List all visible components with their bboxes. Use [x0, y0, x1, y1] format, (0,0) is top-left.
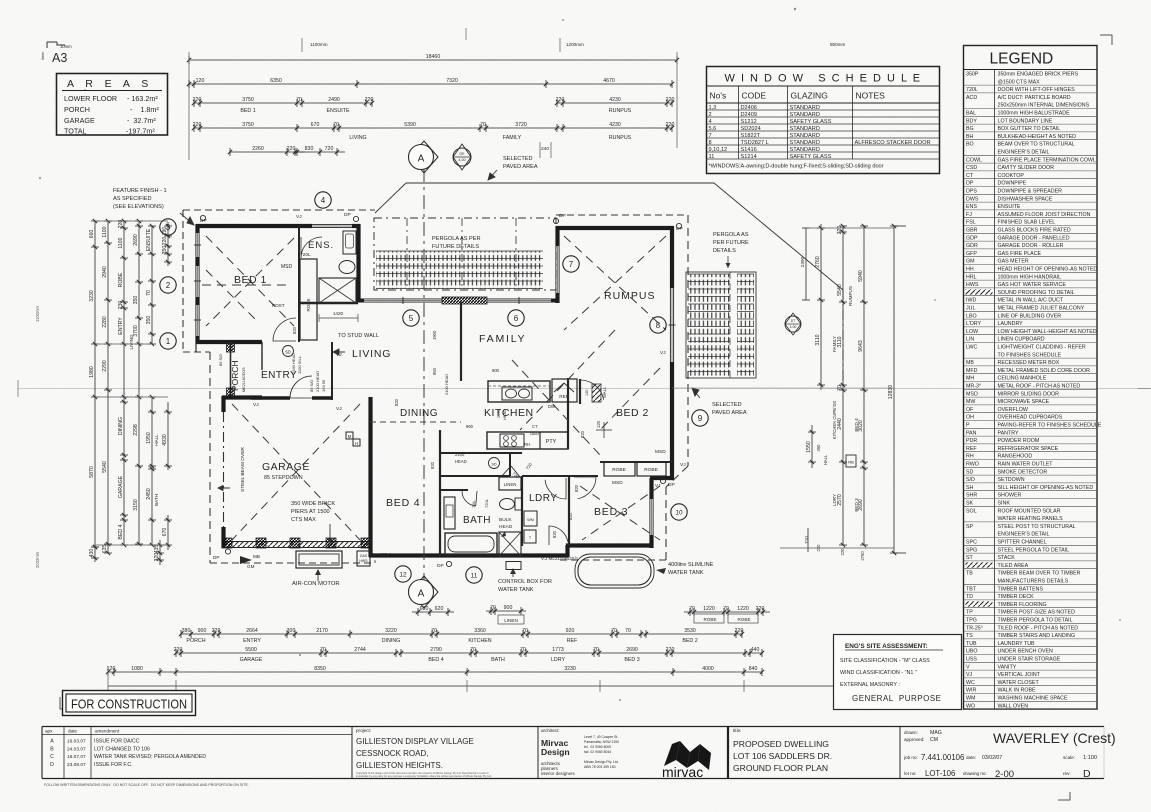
title block divider project — [351, 727, 353, 779]
svg-text:CT: CT — [532, 424, 538, 429]
svg-text:REF: REF — [567, 638, 578, 644]
svg-text:2: 2 — [166, 281, 171, 290]
svg-text:FAMILY: FAMILY — [479, 333, 526, 345]
svg-text:BULKHEAD-HEIGHT AS NOTED: BULKHEAD-HEIGHT AS NOTED — [998, 134, 1077, 140]
svg-text:ENS.: ENS. — [308, 240, 334, 251]
svg-text:WO: WO — [966, 703, 975, 709]
svg-text:OF: OF — [966, 407, 974, 413]
svg-text:TIMBER DECK: TIMBER DECK — [998, 594, 1035, 600]
svg-text:BED 1: BED 1 — [234, 274, 267, 286]
svg-text:RUMPUS: RUMPUS — [848, 286, 853, 306]
svg-text:OVERHEAD CUPBOARDS: OVERHEAD CUPBOARDS — [998, 415, 1063, 421]
svg-text:BED 1: BED 1 — [240, 108, 255, 114]
svg-text:STEEL BEAM OVER: STEEL BEAM OVER — [240, 447, 246, 492]
drawing ref marker DE — [453, 148, 471, 166]
svg-text:TIMBER BATTENS: TIMBER BATTENS — [998, 586, 1044, 592]
svg-text:AIR-CON MOTOR: AIR-CON MOTOR — [292, 581, 340, 587]
svg-text:1550: 1550 — [806, 441, 812, 453]
window marker 1 — [160, 333, 176, 349]
svg-text:CTS MAX: CTS MAX — [291, 517, 316, 523]
svg-text:220: 220 — [556, 97, 565, 103]
svg-text:MSD: MSD — [612, 480, 623, 486]
svg-text:SILL HEIGHT OF OPENING-AS NOTE: SILL HEIGHT OF OPENING-AS NOTED — [998, 485, 1094, 491]
svg-text:DP: DP — [559, 213, 566, 219]
svg-text:85 STEPDOWN: 85 STEPDOWN — [264, 475, 303, 481]
svg-text:03/02/07: 03/02/07 — [982, 755, 1002, 761]
wall ens east — [356, 224, 360, 302]
svg-text:3110: 3110 — [837, 336, 843, 347]
svg-text:@1500 CTS MAX: @1500 CTS MAX — [998, 79, 1041, 85]
top edge fold mark — [465, 28, 467, 40]
svg-text:FAMILY: FAMILY — [832, 336, 837, 352]
svg-text:DINING: DINING — [382, 638, 401, 644]
svg-text:680: 680 — [420, 606, 429, 612]
svg-text:230: 230 — [118, 301, 124, 310]
svg-text:11: 11 — [471, 572, 478, 579]
svg-text:MFD: MFD — [966, 368, 978, 374]
svg-text:SPG: SPG — [966, 547, 977, 553]
svg-text:3750: 3750 — [242, 122, 254, 128]
svg-text:BED 4: BED 4 — [854, 418, 859, 432]
svg-text:DP: DP — [213, 555, 219, 560]
svg-text:18460: 18460 — [426, 54, 441, 60]
svg-text:PERGOLA AS: PERGOLA AS — [713, 232, 749, 238]
svg-text:5540: 5540 — [102, 461, 108, 473]
svg-text:- 1.8m²: - 1.8m² — [130, 105, 159, 114]
svg-text:D: D — [50, 762, 54, 768]
svg-text:FEATURE FINISH - 1: FEATURE FINISH - 1 — [113, 188, 167, 194]
svg-text:PDR: PDR — [966, 438, 977, 444]
svg-text:DOWNPIPE & SPREADER: DOWNPIPE & SPREADER — [998, 189, 1063, 195]
svg-text:ROBE: ROBE — [612, 467, 626, 473]
svg-text:drawing no:: drawing no: — [963, 771, 987, 776]
wall bed4 north / dining — [370, 429, 440, 431]
svg-text:LBO: LBO — [966, 313, 977, 319]
svg-text:*WINDOWS:A-awning;D-double hun: *WINDOWS:A-awning;D-double hung;F-fixed;… — [709, 164, 884, 170]
svg-text:interior designers: interior designers — [541, 771, 575, 776]
svg-text:70: 70 — [320, 647, 326, 653]
svg-text:BED 4: BED 4 — [118, 524, 124, 539]
svg-text:DP: DP — [344, 212, 351, 218]
left dim chain col5 — [151, 226, 153, 344]
svg-text:MR-3°: MR-3° — [966, 384, 981, 390]
wall rumpus north — [556, 226, 674, 230]
svg-text:STEEL POST TO STRUCTURAL: STEEL POST TO STRUCTURAL — [998, 524, 1076, 530]
window 7 rumpus west — [555, 246, 557, 293]
svg-text:ENSUITE: ENSUITE — [998, 204, 1021, 210]
svg-text:4000: 4000 — [702, 666, 714, 672]
svg-text:70: 70 — [431, 628, 437, 634]
svg-text:HALL: HALL — [823, 454, 828, 465]
wall kitchen/bed2 — [567, 378, 569, 449]
revision table — [42, 734, 352, 736]
svg-text:ROBE: ROBE — [703, 617, 716, 622]
svg-text:BED 2: BED 2 — [682, 638, 697, 644]
window marker 10 — [671, 504, 687, 520]
bath tiled corner X — [499, 532, 521, 556]
svg-text:VJ: VJ — [253, 402, 259, 408]
svg-text:CONTROL BOX FOR: CONTROL BOX FOR — [498, 579, 552, 585]
svg-text:1773: 1773 — [552, 647, 564, 653]
svg-text:2100 HEAD: 2100 HEAD — [444, 374, 449, 395]
svg-text:23.08.07: 23.08.07 — [67, 762, 86, 768]
svg-text:350: 350 — [133, 296, 139, 305]
svg-text:SELECTED: SELECTED — [712, 402, 742, 408]
svg-text:GARAGE DOOR - ROLLER: GARAGE DOOR - ROLLER — [998, 243, 1064, 249]
top dim row 5 partial — [230, 151, 305, 153]
wall bed3 west — [568, 476, 570, 545]
svg-text:BAL: BAL — [966, 111, 976, 117]
svg-text:fax. 02 9080 8044: fax. 02 9080 8044 — [584, 750, 611, 754]
svg-text:380: 380 — [182, 628, 191, 634]
title block divider title — [727, 727, 729, 779]
wall living/family north with windows 5,6 — [358, 299, 364, 303]
right horiz tie line at top — [806, 227, 894, 229]
svg-text:70: 70 — [625, 628, 631, 634]
top dim row 2: 120 6350 7320 4670 — [189, 83, 672, 85]
svg-text:6350: 6350 — [270, 78, 282, 84]
svg-text:ROBE: ROBE — [118, 272, 124, 287]
svg-text:MIRROR SLIDING DOOR: MIRROR SLIDING DOOR — [998, 391, 1060, 397]
left dim chain col4 — [138, 221, 140, 544]
sheet centerline left edge mark — [17, 380, 19, 397]
svg-text:2690: 2690 — [858, 499, 864, 511]
svg-text:REF: REF — [966, 446, 977, 452]
LEGEND table — [964, 46, 1098, 710]
svg-text:72lL: 72lL — [471, 500, 476, 508]
AREAS table — [57, 74, 168, 136]
svg-text:MANUFACTURERS DETAILS: MANUFACTURERS DETAILS — [998, 579, 1069, 585]
svg-text:B: B — [50, 746, 54, 752]
svg-text:720L: 720L — [966, 87, 978, 93]
svg-text:TIMBER BEAM OVER TO TIMBER: TIMBER BEAM OVER TO TIMBER — [998, 571, 1081, 577]
svg-text:3020: 3020 — [858, 420, 864, 432]
svg-text:H: H — [355, 441, 358, 446]
bed2 dashed diag — [512, 360, 600, 455]
svg-text:1900: 1900 — [432, 330, 437, 340]
svg-text:SHOWER: SHOWER — [998, 493, 1022, 499]
svg-text:tel. 02 9080 8000: tel. 02 9080 8000 — [584, 745, 611, 749]
svg-text:TB: TB — [966, 571, 973, 577]
svg-text:7.441.00106: 7.441.00106 — [921, 753, 964, 762]
wall garage south with piers — [222, 541, 372, 543]
svg-text:HEAD: HEAD — [499, 524, 513, 530]
svg-text:TBT: TBT — [966, 586, 977, 592]
svg-text:KITCHEN: KITCHEN — [468, 638, 491, 644]
svg-text:BATH: BATH — [154, 494, 159, 506]
svg-text:TILED AREA: TILED AREA — [998, 563, 1029, 569]
svg-text:24.03.07: 24.03.07 — [67, 746, 86, 752]
svg-text:635: 635 — [102, 545, 108, 554]
wall garage north — [222, 395, 262, 399]
svg-text:TS: TS — [966, 633, 973, 639]
right dim small 1550/hall — [811, 425, 813, 468]
svg-text:4-00: 4-00 — [458, 158, 465, 162]
svg-text:HWS: HWS — [966, 282, 979, 288]
svg-text:PTY: PTY — [546, 439, 557, 445]
svg-text:8350: 8350 — [314, 666, 326, 672]
svg-text:SMOKE DETECTOR: SMOKE DETECTOR — [998, 469, 1048, 475]
section marker A bottom — [410, 576, 438, 608]
svg-text:RUMPUS: RUMPUS — [604, 290, 656, 302]
svg-text:820: 820 — [580, 430, 585, 438]
svg-text:No's: No's — [710, 91, 727, 101]
svg-text:220: 220 — [162, 237, 168, 246]
svg-text:FAMILY: FAMILY — [503, 135, 522, 141]
window marker 7 — [563, 256, 579, 272]
svg-text:V.J ML2115RDS/1: V.J ML2115RDS/1 — [541, 556, 579, 561]
wall rumpus west — [555, 226, 559, 246]
svg-text:TIMBER STAIRS AND LANDING: TIMBER STAIRS AND LANDING — [998, 633, 1076, 639]
svg-text:70: 70 — [490, 605, 496, 611]
svg-text:ENG'S SITE ASSESSMENT:: ENG'S SITE ASSESSMENT: — [845, 643, 928, 650]
wall bed1 west (windows 1,2,3) — [195, 224, 199, 233]
svg-text:approved:: approved: — [904, 737, 924, 742]
svg-text:WATER TANK: WATER TANK — [668, 570, 704, 576]
svg-text:220: 220 — [666, 97, 675, 103]
svg-text:2490: 2490 — [328, 97, 340, 103]
svg-text:GAS FIRE PLACE: GAS FIRE PLACE — [998, 251, 1042, 257]
svg-text:CSD: CSD — [966, 165, 977, 171]
svg-text:220: 220 — [837, 226, 843, 235]
svg-text:12830: 12830 — [888, 385, 894, 400]
svg-text:920: 920 — [566, 628, 575, 634]
svg-text:220: 220 — [840, 548, 845, 556]
svg-text:BED 4: BED 4 — [386, 497, 420, 509]
svg-text:REF: REF — [559, 394, 569, 400]
svg-text:1100: 1100 — [118, 237, 124, 248]
svg-text:900: 900 — [492, 368, 500, 373]
bed1 dashed joist lines — [206, 236, 294, 326]
svg-text:2290: 2290 — [102, 360, 108, 372]
svg-text:140: 140 — [585, 390, 589, 396]
svg-text:CEILING MANHOLE: CEILING MANHOLE — [998, 376, 1047, 382]
svg-text:220: 220 — [735, 628, 744, 634]
WINDOW SCHEDULE table — [707, 67, 940, 174]
svg-text:1080: 1080 — [131, 666, 143, 672]
svg-text:WAVERLEY (Crest): WAVERLEY (Crest) — [993, 730, 1116, 746]
right dim chain rumpus/family — [842, 226, 844, 545]
svg-text:DP: DP — [966, 181, 974, 187]
scan specks — [794, 8, 796, 10]
svg-text:2390: 2390 — [800, 256, 806, 267]
svg-text:2690: 2690 — [626, 647, 638, 653]
svg-text:5500: 5500 — [245, 647, 257, 653]
bath wc — [500, 499, 515, 510]
svg-text:2450: 2450 — [146, 488, 152, 500]
svg-text:IWD: IWD — [966, 298, 976, 304]
svg-text:PER FUTURE: PER FUTURE — [713, 240, 749, 246]
svg-text:2440: 2440 — [837, 418, 843, 430]
svg-text:ACD: ACD — [966, 95, 977, 101]
svg-text:C: C — [50, 754, 54, 760]
svg-text:RUNPUS: RUNPUS — [609, 135, 632, 141]
svg-text:S/D: S/D — [966, 477, 975, 483]
svg-text:A R E A S: A R E A S — [67, 78, 150, 90]
wall ens/bed1 divider + robe — [298, 226, 300, 342]
svg-text:BH: BH — [966, 134, 974, 140]
svg-text:ABN 78 003 359 153: ABN 78 003 359 153 — [584, 765, 616, 769]
svg-text:1: 1 — [166, 337, 171, 346]
wall living/dining divider (x461) — [460, 302, 462, 381]
svg-text:GILLIESTON DISPLAY VILLAGE: GILLIESTON DISPLAY VILLAGE — [356, 737, 474, 746]
svg-text:1200mm: 1200mm — [566, 42, 584, 47]
svg-text:BED 4: BED 4 — [428, 657, 443, 663]
svg-text:PAVED AREA: PAVED AREA — [712, 410, 747, 416]
svg-text:COOKTOP: COOKTOP — [998, 173, 1025, 179]
svg-text:3230: 3230 — [564, 666, 576, 672]
ldry fixtures (tub/wm) — [524, 511, 537, 526]
svg-text:TUB: TUB — [966, 641, 977, 647]
svg-text:HWS: HWS — [359, 559, 368, 563]
svg-text:PORCH: PORCH — [186, 638, 205, 644]
svg-text:DINING: DINING — [400, 408, 438, 419]
svg-text:title:: title: — [733, 728, 741, 733]
svg-text:SK: SK — [966, 501, 974, 507]
left dim chain col3 — [123, 221, 125, 545]
svg-text:drawn:: drawn: — [904, 730, 918, 735]
svg-text:VERTICAL JOINT: VERTICAL JOINT — [998, 672, 1041, 678]
window marker 4 — [315, 192, 331, 208]
ldry door arc — [545, 478, 566, 499]
svg-text:TILED ROOF - PITCH AS NOTED: TILED ROOF - PITCH AS NOTED — [998, 625, 1079, 631]
svg-text:LAUNDRY TUB: LAUNDRY TUB — [998, 641, 1036, 647]
svg-text:9643: 9643 — [858, 340, 864, 352]
svg-text:5540: 5540 — [837, 284, 843, 296]
ref nook + wall label — [552, 379, 577, 402]
title block divider info — [899, 727, 901, 779]
right dim overall 12830 — [893, 226, 895, 553]
svg-text:2760: 2760 — [815, 256, 821, 268]
svg-text:LDRY: LDRY — [551, 657, 566, 663]
svg-text:300: 300 — [287, 628, 296, 634]
svg-text:REFRIGERATOR SPACE: REFRIGERATOR SPACE — [998, 446, 1059, 452]
section marker A top — [410, 141, 438, 173]
svg-text:CAVITY SLIDER DOOR: CAVITY SLIDER DOOR — [998, 165, 1055, 171]
svg-text:LIVING: LIVING — [352, 348, 391, 360]
svg-text:VJ: VJ — [336, 406, 342, 412]
svg-text:320: 320 — [154, 553, 160, 562]
svg-text:220: 220 — [666, 122, 675, 128]
svg-text:LIN: LIN — [966, 337, 974, 343]
svg-text:TOTAL: TOTAL — [64, 127, 87, 136]
wall east (bed2/rumpus) — [670, 226, 674, 288]
svg-text:2032mm: 2032mm — [35, 551, 40, 568]
wall bed4/bath south — [369, 553, 568, 557]
svg-text:SPC: SPC — [966, 540, 977, 546]
svg-text:LINE OF BUILDING OVER: LINE OF BUILDING OVER — [998, 313, 1062, 319]
kitchen sink — [502, 387, 532, 400]
svg-text:GFP: GFP — [966, 251, 977, 257]
svg-text:ENGINEER’S DETAIL: ENGINEER’S DETAIL — [998, 532, 1050, 538]
svg-text:16.03.07: 16.03.07 — [67, 739, 86, 745]
svg-text:5390: 5390 — [404, 122, 416, 128]
svg-text:WALL OVEN: WALL OVEN — [998, 703, 1029, 709]
svg-text:SINK: SINK — [998, 501, 1011, 507]
svg-text:- 32.7m²: - 32.7m² — [127, 116, 156, 125]
svg-text:VJ: VJ — [680, 462, 686, 468]
svg-text:SITE CLASSIFICATION - "M" CLAS: SITE CLASSIFICATION - "M" CLASS — [840, 658, 930, 664]
svg-text:A3: A3 — [52, 51, 67, 65]
svg-text:BG: BG — [966, 126, 974, 132]
bottom dim row 4 totals — [108, 671, 762, 673]
left dim tie lines — [95, 220, 168, 222]
bottom tie line — [108, 685, 905, 687]
wall bed1 north — [196, 224, 312, 228]
svg-text:WATER TANK REVISED; PERGOLA AM: WATER TANK REVISED; PERGOLA AMENDED — [94, 754, 206, 760]
section line A-A vertical — [423, 168, 425, 588]
svg-text:3150: 3150 — [133, 499, 139, 511]
svg-text:L'DRY: L'DRY — [966, 321, 982, 327]
svg-text:435: 435 — [154, 545, 160, 554]
smoke detector — [283, 346, 294, 357]
svg-text:2100: 2100 — [455, 452, 465, 457]
svg-text:METAL ROOF - PITCH AS NOTED: METAL ROOF - PITCH AS NOTED — [998, 384, 1081, 390]
window 4 ens north — [312, 223, 352, 225]
svg-text:RH: RH — [524, 442, 530, 447]
svg-text:LOT CHANGED TO 106: LOT CHANGED TO 106 — [94, 746, 150, 752]
ens vanity — [343, 231, 356, 254]
svg-text:MSD: MSD — [966, 391, 978, 397]
svg-text:DW: DW — [548, 404, 555, 409]
wall bed3 south — [566, 543, 653, 547]
svg-text:1100mm: 1100mm — [35, 306, 40, 322]
svg-text:2664: 2664 — [246, 628, 258, 634]
right dim chain col 2390/2760 — [805, 228, 807, 300]
air-con motor — [296, 551, 342, 568]
svg-text:BED 3: BED 3 — [854, 498, 859, 512]
svg-text:820: 820 — [552, 530, 557, 538]
top dim row 3 bed1/ensuite — [194, 102, 372, 104]
svg-text:3360: 3360 — [474, 628, 486, 634]
eave dashed outline — [183, 209, 375, 211]
svg-text:70: 70 — [611, 628, 617, 634]
title block outline — [42, 726, 1104, 728]
svg-text:WIND CLASSIFICATION - "N1 ": WIND CLASSIFICATION - "N1 " — [840, 670, 917, 676]
svg-text:DINING: DINING — [118, 417, 124, 435]
title block divider architect — [537, 727, 539, 779]
svg-text:220: 220 — [756, 606, 765, 612]
svg-text:POST: POST — [272, 303, 285, 308]
svg-text:1000mm HIGH BALUSTRADE: 1000mm HIGH BALUSTRADE — [998, 111, 1071, 117]
svg-text:ENSUITE: ENSUITE — [327, 108, 350, 114]
svg-text:LWC: LWC — [966, 345, 978, 351]
svg-text:LOT BOUNDARY LINE: LOT BOUNDARY LINE — [998, 118, 1053, 124]
wall entry/living — [331, 342, 333, 400]
svg-text:GROUND FLOOR PLAN: GROUND FLOOR PLAN — [733, 763, 828, 773]
svg-text:LIVING: LIVING — [129, 334, 134, 349]
svg-text:16.07.07: 16.07.07 — [67, 754, 86, 760]
svg-text:1220: 1220 — [737, 606, 749, 612]
svg-text:rev:: rev: — [1063, 771, 1071, 776]
svg-text:GM: GM — [247, 564, 255, 569]
svg-text:850mm: 850mm — [830, 42, 845, 47]
svg-text:A/C DUCT: PARTICLE BOARD: A/C DUCT: PARTICLE BOARD — [998, 95, 1071, 101]
svg-text:1:100: 1:100 — [1083, 755, 1097, 761]
svg-text:120: 120 — [596, 420, 601, 428]
window marker 6 — [508, 310, 524, 326]
svg-text:MSD: MSD — [655, 449, 666, 455]
svg-text:2940: 2940 — [102, 266, 108, 278]
svg-text:720: 720 — [325, 146, 334, 152]
left dim chain col6 — [167, 222, 169, 266]
wall entry front + door — [251, 396, 290, 400]
svg-text:VJ: VJ — [966, 672, 973, 678]
svg-text:M: M — [348, 434, 352, 439]
ldry external door — [549, 526, 568, 545]
svg-text:900: 900 — [504, 605, 513, 611]
selected paved area outline — [375, 183, 406, 213]
